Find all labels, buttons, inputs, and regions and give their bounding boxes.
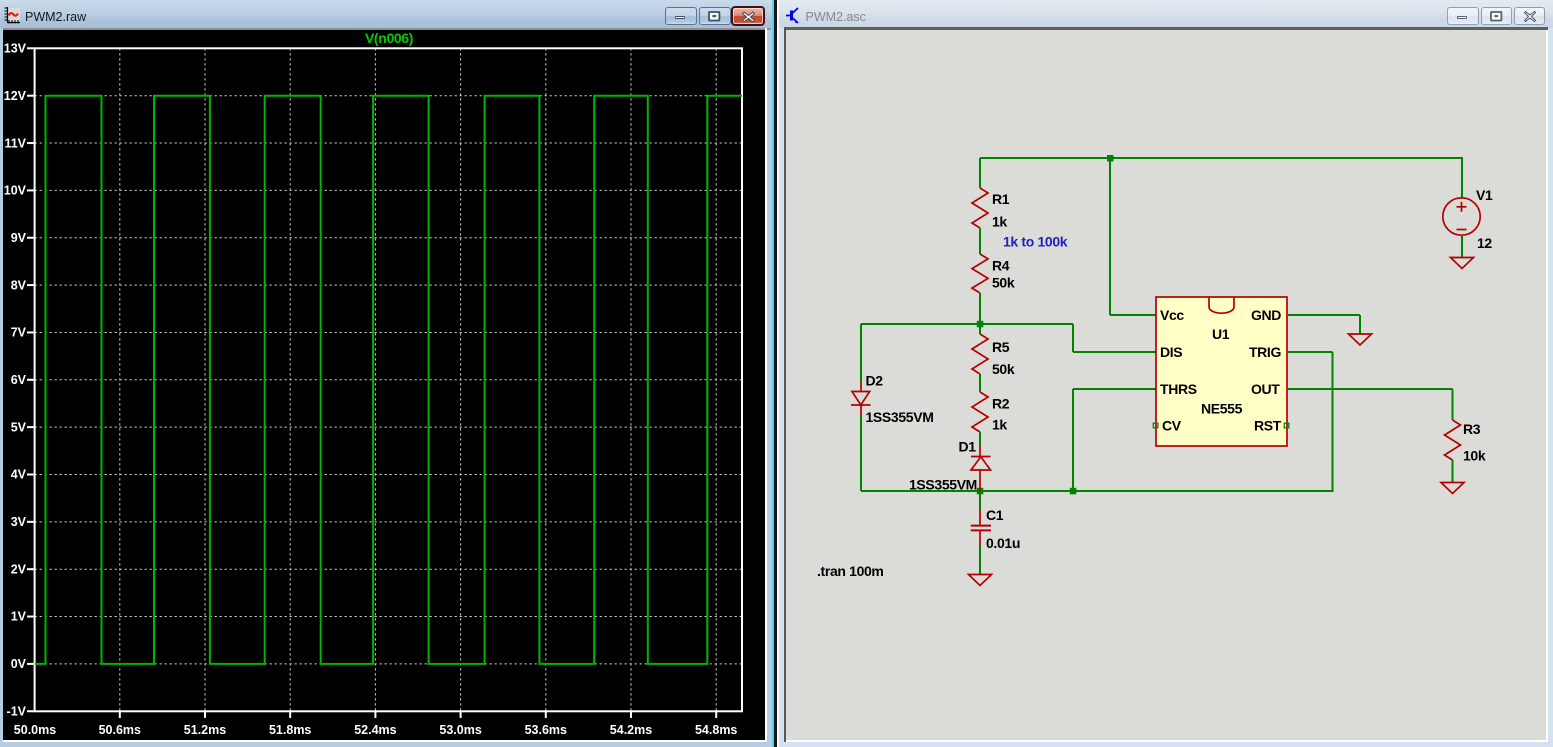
diode D2: [851, 382, 871, 416]
svg-text:53.0ms: 53.0ms: [439, 723, 481, 737]
wire R5 top lead: [979, 324, 981, 334]
wire V1 top lead: [1461, 157, 1463, 198]
svg-text:D2: D2: [866, 373, 884, 389]
wire C1 bottom lead: [979, 546, 981, 575]
wire R3 bottom lead: [1452, 460, 1454, 483]
resistor R3: [1445, 420, 1461, 460]
wire node row y491: [861, 490, 1333, 492]
svg-text:1SS355VM: 1SS355VM: [909, 477, 977, 493]
junction top rail / Vcc: [1107, 155, 1114, 162]
svg-text:50.6ms: 50.6ms: [99, 723, 141, 737]
x axis labels: [14, 723, 738, 737]
svg-text:54.8ms: 54.8ms: [695, 723, 737, 737]
svg-text:50k: 50k: [992, 361, 1015, 377]
svg-text:.tran 100m: .tran 100m: [817, 563, 884, 579]
svg-text:CV: CV: [1162, 418, 1182, 434]
window buttons (active): [665, 7, 697, 25]
ground under R3: [1441, 483, 1464, 494]
svg-text:U1: U1: [1212, 326, 1230, 342]
wire OUT vertical to R3: [1452, 389, 1454, 420]
svg-text:12V: 12V: [4, 89, 27, 103]
title bar: [779, 0, 1553, 28]
window buttons (inactive): [1447, 7, 1479, 25]
svg-text:3V: 3V: [11, 515, 27, 529]
svg-text:R4: R4: [992, 258, 1010, 274]
svg-text:TRIG: TRIG: [1249, 344, 1282, 360]
wire GND pin vertical: [1359, 315, 1361, 335]
wire D2 top lead: [860, 324, 862, 382]
wire R2-D1: [979, 432, 981, 446]
svg-text:5V: 5V: [11, 420, 27, 434]
wire node row y324: [861, 323, 1073, 325]
svg-text:OUT: OUT: [1251, 381, 1280, 397]
svg-text:7V: 7V: [11, 326, 27, 340]
svg-text:52.4ms: 52.4ms: [354, 723, 396, 737]
wire D2 bottom lead: [860, 416, 862, 491]
black client: [3, 30, 765, 740]
svg-text:D1: D1: [959, 439, 977, 455]
svg-text:GND: GND: [1251, 307, 1281, 323]
svg-text:50k: 50k: [992, 275, 1015, 291]
ground under V1: [1451, 258, 1474, 269]
svg-text:1SS355VM: 1SS355VM: [866, 409, 934, 425]
wire Vcc branch horizontal: [1110, 314, 1156, 316]
resistor R5: [972, 334, 988, 374]
wire GND pin horizontal: [1287, 314, 1360, 316]
op-amp U1 NE555 body: [1156, 297, 1287, 446]
schematic SVG placeholder: [786, 30, 1546, 740]
svg-text:R3: R3: [1463, 421, 1481, 437]
svg-text:51.8ms: 51.8ms: [269, 723, 311, 737]
wire OUT horizontal: [1287, 388, 1453, 390]
svg-text:R2: R2: [992, 396, 1010, 412]
svg-text:1k: 1k: [992, 214, 1007, 230]
svg-text:2V: 2V: [11, 562, 27, 576]
plot frame: [35, 48, 742, 711]
y axis ticks: [27, 48, 34, 711]
title bar: [0, 0, 773, 28]
vertical dashed gridlines: [120, 48, 716, 711]
svg-text:DIS: DIS: [1160, 344, 1182, 360]
y axis labels: [4, 42, 27, 719]
wire THRS vertical: [1072, 389, 1074, 491]
svg-text:8V: 8V: [11, 278, 27, 292]
client sunken border: [784, 27, 1548, 30]
resistor R2: [972, 392, 988, 432]
wire top rail from R1 to V1: [980, 157, 1462, 159]
active edge cyan strip: [772, 0, 774, 747]
pin stub CV unconnected: [1153, 423, 1158, 428]
svg-text:NE555: NE555: [1201, 401, 1243, 417]
diode D1: [971, 446, 991, 491]
svg-text:1V: 1V: [11, 610, 27, 624]
svg-text:1k: 1k: [992, 417, 1007, 433]
wire DIS horizontal: [1073, 351, 1156, 353]
svg-text:54.2ms: 54.2ms: [610, 723, 652, 737]
svg-text:R5: R5: [992, 339, 1010, 355]
svg-text:0V: 0V: [11, 657, 27, 671]
waveform plot SVG placeholder: [3, 30, 765, 740]
wire R1 top lead: [979, 158, 981, 188]
title icon: waveform: [4, 7, 21, 24]
svg-text:10V: 10V: [4, 184, 27, 198]
pin stub RST unconnected: [1284, 423, 1289, 428]
U1 notch: [1209, 298, 1234, 313]
voltage source V1: [1443, 198, 1480, 235]
gray schematic client: [786, 30, 1546, 740]
svg-text:50.0ms: 50.0ms: [14, 723, 56, 737]
svg-text:53.6ms: 53.6ms: [525, 723, 567, 737]
wire TRIG horizontal: [1287, 351, 1333, 353]
horizontal dashed gridlines: [35, 96, 742, 664]
svg-text:C1: C1: [986, 507, 1004, 523]
client sunken border: [3, 28, 771, 30]
junction row y491 at THRS branch: [1070, 488, 1077, 495]
trace V(n006) square wave: [35, 96, 742, 664]
wire R4 bottom lead: [979, 293, 981, 324]
resistor R1: [972, 188, 988, 228]
svg-text:V1: V1: [1476, 187, 1493, 203]
wire THRS horizontal: [1073, 388, 1156, 390]
junction row y491 at C1: [977, 488, 984, 495]
wire R5-R2: [979, 374, 981, 392]
svg-text:V(n006): V(n006): [365, 30, 413, 46]
wire R1-R4: [979, 228, 981, 254]
title icon: transistor (asc): [786, 7, 803, 25]
svg-text:6V: 6V: [11, 373, 27, 387]
white inner edges: [1546, 30, 1548, 742]
ground at GND pin: [1349, 334, 1372, 345]
svg-text:51.2ms: 51.2ms: [184, 723, 226, 737]
resistor R4: [972, 254, 988, 293]
wire C1 top lead: [979, 491, 981, 510]
svg-text:R1: R1: [992, 191, 1010, 207]
svg-text:-1V: -1V: [7, 704, 27, 718]
wire TRIG vertical: [1332, 352, 1334, 492]
wire DIS vertical: [1072, 324, 1074, 352]
svg-text:Vcc: Vcc: [1160, 307, 1184, 323]
svg-text:THRS: THRS: [1160, 381, 1197, 397]
x axis ticks: [120, 712, 716, 718]
white inner edges: [765, 28, 767, 742]
wire V1 bottom lead: [1461, 235, 1463, 258]
svg-text:13V: 13V: [4, 42, 27, 56]
svg-text:9V: 9V: [11, 231, 27, 245]
capacitor C1: [971, 510, 991, 546]
svg-text:11V: 11V: [4, 136, 26, 150]
svg-text:RST: RST: [1254, 418, 1282, 434]
wire Vcc branch vertical: [1109, 158, 1111, 315]
ground under C1: [969, 575, 992, 586]
svg-text:1k to 100k: 1k to 100k: [1003, 234, 1068, 250]
svg-text:12: 12: [1477, 235, 1492, 251]
svg-text:0.01u: 0.01u: [986, 535, 1020, 551]
svg-text:4V: 4V: [11, 468, 27, 482]
svg-text:10k: 10k: [1463, 448, 1486, 464]
junction node row y324: [977, 321, 984, 328]
